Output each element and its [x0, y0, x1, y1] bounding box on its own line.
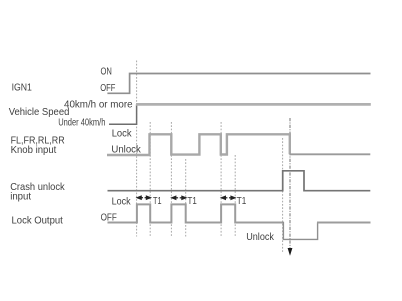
svg-text:Under 40km/h: Under 40km/h [58, 117, 105, 129]
svg-text:T1: T1 [237, 195, 247, 207]
svg-text:Lock: Lock [112, 128, 133, 140]
svg-text:input: input [10, 190, 31, 202]
svg-text:T1: T1 [188, 195, 197, 207]
svg-text:OFF: OFF [100, 82, 115, 94]
svg-text:Knob input: Knob input [11, 144, 57, 156]
svg-text:Lock Output: Lock Output [12, 215, 63, 227]
svg-text:Unlock: Unlock [111, 143, 141, 155]
svg-text:T1: T1 [153, 195, 162, 207]
svg-text:40km/h or more: 40km/h or more [64, 98, 133, 110]
svg-text:Lock: Lock [112, 196, 132, 208]
svg-text:Unlock: Unlock [246, 231, 274, 243]
svg-text:ON: ON [101, 66, 112, 78]
svg-text:OFF: OFF [101, 211, 117, 223]
svg-text:IGN1: IGN1 [12, 82, 32, 94]
